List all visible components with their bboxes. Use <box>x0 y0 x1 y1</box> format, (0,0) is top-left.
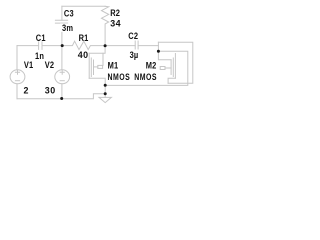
voltage source V2 circle <box>55 70 70 84</box>
resistor R2 <box>102 6 109 46</box>
svg-text:R1: R1 <box>79 33 89 43</box>
transistor M1 drain-source rail <box>88 53 90 78</box>
capacitor C2 plates <box>135 41 138 49</box>
wire C1 to node <box>42 45 62 47</box>
capacitor C1 plates <box>39 42 42 50</box>
voltage source V2 lead top <box>61 46 63 70</box>
svg-text:R2: R2 <box>110 8 120 18</box>
wire R1 node to C2 <box>105 45 135 47</box>
transistor M1 gate tie <box>102 53 104 65</box>
capacitor C3 top lead <box>61 6 63 20</box>
capacitor C3 plates <box>55 20 67 23</box>
V2 minus sign <box>60 80 64 82</box>
transistor M2 drain-source rail <box>174 54 176 79</box>
wire C2 to M2 node <box>138 45 158 47</box>
svg-text:NMOS: NMOS <box>134 72 157 82</box>
transistor M1 bulk box <box>98 65 103 68</box>
transistor M2 bulk box <box>160 67 165 70</box>
node junction dot M2 drain <box>157 50 160 53</box>
svg-text:M2: M2 <box>146 61 157 71</box>
wire C1 row left <box>17 45 39 47</box>
svg-text:1n: 1n <box>35 52 44 62</box>
voltage source V1 lead bottom <box>16 84 18 99</box>
node junction dot ground <box>104 92 107 95</box>
transistor M2 source connector <box>168 78 175 83</box>
svg-text:NMOS: NMOS <box>108 72 131 82</box>
transistor M1 channel bar <box>90 58 92 77</box>
M2 node jog <box>157 42 159 51</box>
svg-text:34: 34 <box>110 18 121 28</box>
ground stub <box>104 94 106 98</box>
transistor M1 gate bar <box>93 60 95 75</box>
svg-text:30: 30 <box>45 86 56 96</box>
svg-text:C2: C2 <box>128 32 138 42</box>
voltage source V1 lead top <box>16 46 18 70</box>
node junction dot bottom rail V2 <box>60 97 63 100</box>
node junction dot R1/R2/C2/M1 <box>104 44 107 47</box>
wire M1 source to gnd node <box>104 85 106 94</box>
V1 minus sign <box>15 80 19 82</box>
voltage source V2 lead bottom <box>61 84 63 99</box>
transistor M1 drain connector <box>89 46 105 54</box>
svg-text:3µ: 3µ <box>130 50 139 60</box>
transistor M2 gate path <box>158 51 171 60</box>
label 3m background <box>60 23 74 31</box>
wire top rail C3 to R2 <box>62 5 105 7</box>
V1 plus sign <box>15 70 19 74</box>
svg-text:2: 2 <box>24 86 29 96</box>
wire M2 inner loop <box>105 51 188 85</box>
transistor M2 channel bar <box>172 58 174 77</box>
resistor R1 <box>62 41 105 49</box>
svg-text:C3: C3 <box>64 9 74 19</box>
ground rail bottom <box>17 94 105 99</box>
transistor M2 gate bar <box>170 60 172 75</box>
svg-text:40: 40 <box>78 50 89 60</box>
voltage source V1 circle <box>10 70 25 84</box>
svg-text:V2: V2 <box>45 60 55 70</box>
node junction dot M1 source <box>104 84 107 87</box>
ground symbol triangle <box>99 97 111 102</box>
transistor M2 bulk dash <box>165 67 171 69</box>
transistor M1 gate lead <box>94 66 98 68</box>
V2 plus sign <box>60 70 64 74</box>
wire top loop M2 outer <box>158 42 192 83</box>
node junction dot C1/R1/C3/V2 <box>61 44 64 47</box>
svg-text:M1: M1 <box>108 61 119 71</box>
capacitor C3 bottom lead <box>61 23 63 45</box>
svg-text:C1: C1 <box>36 33 46 43</box>
svg-text:3m: 3m <box>62 24 73 34</box>
transistor M1 source connector <box>89 78 105 85</box>
svg-text:V1: V1 <box>24 60 34 70</box>
